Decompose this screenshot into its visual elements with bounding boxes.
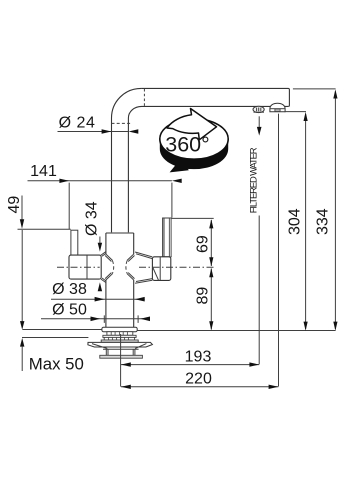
left lever cone bottom (double) <box>101 278 106 283</box>
right lever stem <box>163 218 172 257</box>
mounting plate 2 <box>101 340 138 342</box>
dimension Ø24 arrows <box>102 129 112 134</box>
svg-text:49: 49 <box>6 196 23 214</box>
dimension 220 arrows <box>121 385 131 389</box>
Max 50 lower arrow <box>20 338 24 347</box>
spout inner elbow arc <box>128 106 141 118</box>
left lever cone top (double) <box>101 252 106 257</box>
svg-text:193: 193 <box>185 348 212 365</box>
waist arc right <box>126 261 127 274</box>
spout tube top line <box>141 88 289 106</box>
Max 50 line lower <box>21 346 23 371</box>
dimension 193 arrows <box>121 362 131 366</box>
dimension Ø34 arrows <box>98 243 102 252</box>
extension line aerator to 193 <box>258 216 260 365</box>
left lever division line <box>86 255 88 279</box>
mounting plate 1 <box>103 335 136 337</box>
dimension 141 extension left <box>68 183 70 230</box>
waist chamfer right top (double) <box>127 254 134 261</box>
faucet body shoulder <box>106 232 134 234</box>
svg-text:69: 69 <box>194 235 211 253</box>
waist chamfer right bottom (double) <box>127 273 134 280</box>
dimension Ø38 line <box>51 298 145 300</box>
dimension Ø50 line <box>41 318 150 320</box>
dimension 69 line <box>210 220 212 330</box>
dimension Ø34 leader <box>99 237 101 244</box>
mounting stack ring 1 <box>107 332 133 336</box>
countertop top line left <box>23 329 102 331</box>
FILTERED WATER arrow <box>258 116 260 128</box>
right lever body <box>152 257 170 281</box>
dimension Ø50 ticks <box>104 315 138 323</box>
right lever diagonal <box>153 267 159 280</box>
svg-text:304: 304 <box>286 208 303 235</box>
left lever stem <box>71 230 78 255</box>
right lever stem shading <box>170 218 172 256</box>
white swirl arrow <box>167 109 217 140</box>
aerator outlet (filtered water) <box>253 106 264 112</box>
outlet head dome <box>270 103 285 112</box>
svg-text:89: 89 <box>194 287 211 305</box>
right lever inner vertical <box>159 257 161 280</box>
base bottom plate <box>100 355 143 358</box>
svg-text:Ø 34: Ø 34 <box>83 201 100 236</box>
svg-text:Ø 50: Ø 50 <box>52 302 87 319</box>
black side band <box>160 139 228 169</box>
body right edge lower <box>133 280 135 328</box>
dimension 49 line <box>21 196 23 222</box>
extension line outlet head to 220 <box>278 114 280 387</box>
right lever stem inner lines <box>164 219 169 257</box>
elbow dashed transition line <box>143 89 145 106</box>
dimension 141 line <box>28 180 172 182</box>
countertop bottom line left <box>22 337 88 339</box>
right lever cone top (double) <box>135 252 152 259</box>
dimension 89 arrows <box>209 268 213 277</box>
dimension Ø50 arrows <box>91 317 101 322</box>
dimension 69 arrows <box>209 219 213 228</box>
saucer under line <box>103 348 139 350</box>
top rim ellipse <box>160 119 228 159</box>
dimension 334 line <box>334 92 336 330</box>
reference line tube top to 334 <box>293 88 336 90</box>
svg-text:141: 141 <box>30 163 57 180</box>
dimension Ø24 leader line <box>58 131 129 133</box>
dimension 49 arrow <box>20 219 24 229</box>
spout tube bottom line <box>142 105 289 107</box>
extension line to left stem top <box>18 228 71 230</box>
left lever centerline dash-dot <box>57 266 100 268</box>
waist chamfer left top (double) <box>105 254 112 261</box>
saucer under diagonals <box>92 344 146 349</box>
riser dashed diameter mark <box>112 122 131 124</box>
riser tube right edge <box>127 118 129 232</box>
Max 50 upper arrow <box>20 321 24 330</box>
body right edge upper <box>133 233 135 254</box>
escutcheon saucer plate <box>88 342 152 347</box>
dimension Ø38 arrows <box>95 297 105 302</box>
waist arc left <box>112 261 113 274</box>
base legs <box>106 349 135 355</box>
body left edge upper <box>105 233 107 254</box>
dimension 304 top reference done above; 304 line <box>305 114 307 329</box>
reference line stem top (69) <box>171 217 213 219</box>
left lever body <box>69 255 101 279</box>
riser tube left edge <box>111 118 113 232</box>
waist chamfer left bottom (double) <box>105 273 112 280</box>
countertop top line right <box>137 330 335 332</box>
svg-text:Ø 38: Ø 38 <box>52 281 87 298</box>
Max 50 dimension line upper <box>21 230 23 322</box>
360 degree rotation symbol <box>160 109 228 173</box>
mounting stack ring 2 <box>104 337 134 340</box>
svg-text:360°: 360° <box>165 133 209 157</box>
dimension 141 extension right <box>171 183 173 218</box>
dimension 141 arrows <box>59 179 69 183</box>
faucet axis extension line <box>120 334 122 387</box>
svg-text:220: 220 <box>185 370 212 387</box>
right lever cone bottom (double) <box>135 279 152 284</box>
svg-text:FILTERED WATER: FILTERED WATER <box>247 147 258 213</box>
svg-text:Max 50: Max 50 <box>29 355 84 374</box>
base cap flange <box>102 327 137 331</box>
spout outer elbow arc <box>112 88 142 118</box>
right lever centerline dash-dot <box>139 266 214 268</box>
line under outlet head (304 reference) <box>285 111 306 113</box>
black arrowhead of band <box>170 158 189 173</box>
dimension 220 line <box>121 386 278 388</box>
svg-text:334: 334 <box>314 208 331 235</box>
body left edge lower <box>105 280 107 328</box>
dimension 193 line <box>121 364 259 366</box>
svg-text:Ø 24: Ø 24 <box>59 115 96 132</box>
